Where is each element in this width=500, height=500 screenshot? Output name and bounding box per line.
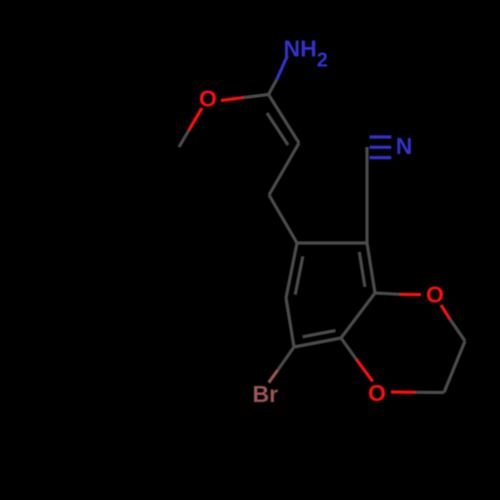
svg-text:O: O — [426, 282, 444, 308]
svg-text:Br: Br — [253, 381, 279, 407]
svg-text:O: O — [199, 86, 217, 112]
svg-text:N: N — [396, 133, 413, 159]
svg-text:O: O — [368, 380, 386, 406]
